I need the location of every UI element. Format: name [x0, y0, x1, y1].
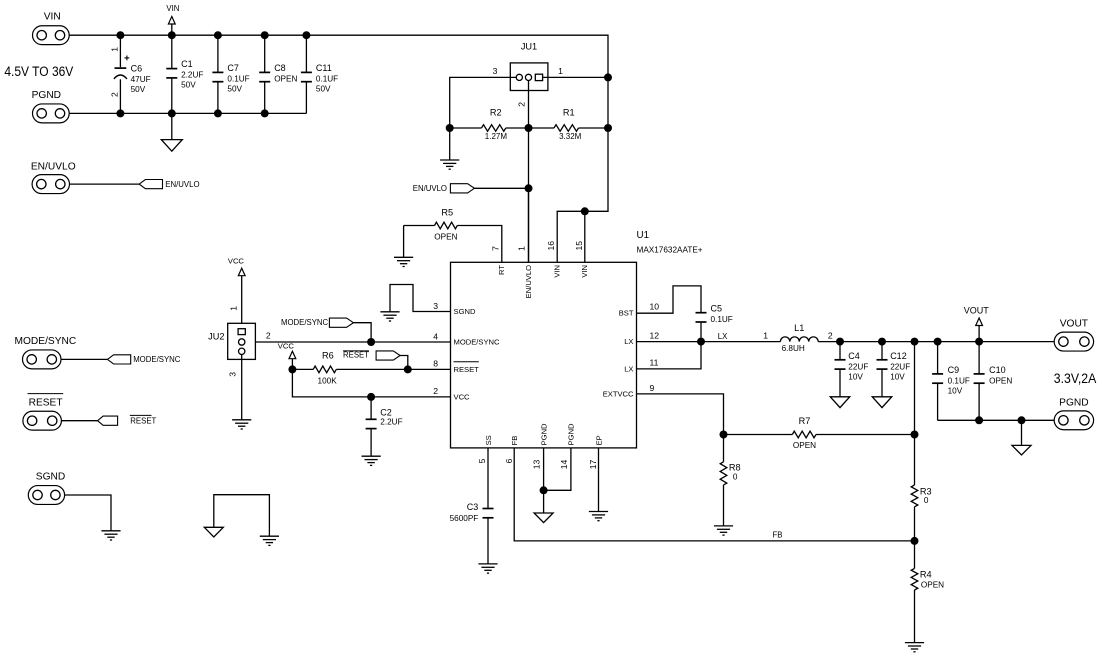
svg-text:2: 2 [516, 102, 526, 107]
svg-text:4.5V TO 36V: 4.5V TO 36V [4, 64, 73, 80]
svg-text:3: 3 [227, 372, 237, 377]
pin 1 label of JU1 [558, 66, 563, 76]
svg-text:LX: LX [624, 337, 633, 346]
svg-text:JU1: JU1 [521, 42, 537, 52]
svg-text:OPEN: OPEN [434, 232, 457, 241]
svg-text:22UF: 22UF [848, 362, 868, 371]
svg-text:EP: EP [594, 435, 603, 445]
wire JU2 pin3 to ground [232, 355, 251, 430]
ground SGND below R2 [440, 128, 459, 169]
pin number 3 [433, 301, 438, 311]
pin name MODE/SYNC [454, 338, 501, 347]
svg-text:2: 2 [110, 92, 120, 97]
pin name LX11 [624, 364, 633, 373]
jumper JU1 [510, 42, 548, 91]
svg-text:MODE/SYNC: MODE/SYNC [454, 338, 501, 347]
ground EP [589, 512, 608, 521]
wire PGND pin 14 [544, 448, 571, 490]
svg-text:13: 13 [532, 460, 542, 470]
svg-text:1: 1 [558, 66, 563, 76]
svg-text:RESET: RESET [29, 397, 63, 408]
pin number 14 [559, 460, 569, 470]
pin 1 label of JU2 [228, 306, 238, 311]
svg-text:5600PF: 5600PF [450, 514, 479, 523]
junction R2-R1 mid [525, 124, 533, 132]
wire FB net [514, 448, 914, 541]
svg-text:1: 1 [228, 306, 238, 311]
wire VCC to pin 2 [292, 369, 450, 397]
wire VIN top rail [69, 35, 608, 211]
svg-text:10V: 10V [890, 372, 905, 381]
svg-text:2.2UF: 2.2UF [181, 71, 203, 80]
wire EP pin 17 [598, 448, 600, 512]
svg-text:C9: C9 [948, 365, 960, 375]
junction EN/UVLO [525, 184, 533, 192]
pin number 9 [650, 383, 655, 393]
pin number 2 [433, 386, 438, 396]
wire JU1 pin3 to R2 [450, 77, 517, 128]
label output rating [1054, 371, 1097, 387]
svg-text:C5: C5 [711, 304, 723, 314]
svg-text:RESET: RESET [343, 351, 369, 360]
net tag EN/UVLO [413, 184, 529, 193]
svg-text:VCC: VCC [228, 257, 245, 266]
junction RESET pin8 [404, 365, 412, 373]
pin name RESET [454, 362, 480, 374]
pin name BST [619, 309, 634, 318]
pin 3 label of JU1 [493, 66, 498, 76]
capacitor C6 [114, 35, 151, 113]
svg-text:C4: C4 [848, 351, 860, 361]
connector J-VOUT [1054, 318, 1093, 351]
capacitor C7 [212, 35, 249, 113]
wire JU1 pin1 to VIN loop [543, 76, 608, 78]
pin 1 EN/UVLO stub [528, 188, 530, 262]
junction VIN pins [581, 207, 589, 215]
junction C2 top [367, 393, 375, 401]
svg-text:4: 4 [433, 331, 438, 341]
svg-text:5: 5 [477, 458, 487, 463]
pin 2 label of JU1 [516, 102, 526, 107]
ground bridge PGND-SGND [204, 495, 279, 546]
svg-text:15: 15 [574, 241, 584, 251]
svg-text:C3: C3 [467, 502, 479, 512]
resistor R8 [714, 435, 741, 536]
svg-text:22UF: 22UF [890, 362, 910, 371]
resistor R5 [404, 207, 502, 262]
connector J-PGND output [1054, 397, 1093, 429]
wire R3 riser [914, 342, 916, 435]
resistor R2 [450, 108, 529, 141]
wire LX pin 11 [637, 342, 702, 369]
power flag VIN [166, 4, 179, 35]
svg-text:1: 1 [110, 47, 120, 52]
resistor R4 [905, 541, 944, 652]
svg-text:100K: 100K [318, 377, 338, 386]
svg-text:PGND: PGND [539, 423, 548, 445]
resistor R6 [292, 351, 407, 386]
svg-text:OPEN: OPEN [921, 580, 944, 589]
svg-text:3: 3 [493, 66, 498, 76]
svg-text:VOUT: VOUT [1060, 318, 1088, 329]
svg-text:VCC: VCC [278, 342, 295, 351]
inductor L1 [763, 323, 833, 353]
svg-text:2.2UF: 2.2UF [380, 417, 402, 426]
pin 2 label of JU2 [266, 331, 271, 341]
svg-text:SGND: SGND [36, 472, 65, 483]
svg-text:VOUT: VOUT [964, 306, 990, 316]
pin number 1 of C6 [110, 47, 120, 52]
pin number 6 [504, 458, 514, 463]
svg-text:VIN: VIN [580, 265, 589, 278]
svg-text:SS: SS [484, 435, 493, 445]
pin name FB [510, 436, 519, 446]
pin 15 VIN stub [584, 211, 586, 262]
svg-text:R3: R3 [920, 486, 932, 496]
pin name SGND [454, 307, 476, 316]
svg-text:10V: 10V [948, 386, 963, 395]
svg-text:10: 10 [650, 302, 660, 312]
svg-text:VCC: VCC [454, 392, 471, 401]
resistor R7 [724, 416, 915, 450]
junction PGND pins [540, 486, 548, 494]
svg-text:16: 16 [546, 241, 556, 251]
label input voltage range [4, 64, 73, 80]
junction R1 right [604, 124, 612, 132]
junction VOUT flag [975, 338, 983, 346]
capacitor C10 [974, 342, 1013, 421]
pin number 12 [650, 330, 660, 340]
svg-text:EN/UVLO: EN/UVLO [31, 161, 76, 172]
svg-text:LX: LX [718, 332, 728, 341]
svg-text:50V: 50V [181, 81, 196, 90]
wire BST to C5 [637, 286, 702, 313]
svg-text:C2: C2 [380, 407, 392, 417]
capacitor C4 [830, 342, 868, 408]
junction C5-LX [697, 338, 705, 346]
svg-text:1.27M: 1.27M [485, 132, 508, 141]
svg-text:EN/UVLO: EN/UVLO [165, 180, 199, 189]
op-amp U1 MAX17632AATE+ body [451, 230, 703, 448]
junction EXTVCC R7 R8 [720, 431, 728, 439]
svg-text:2: 2 [828, 330, 833, 340]
pin 16 VIN stub [557, 211, 585, 262]
wire PGND input rail [69, 112, 306, 114]
capacitor C5 [696, 304, 733, 342]
svg-text:FB: FB [773, 531, 783, 540]
svg-text:R1: R1 [563, 108, 575, 118]
svg-text:PGND: PGND [1059, 397, 1088, 408]
junction MODE/SYNC [367, 338, 375, 346]
capacitor C11 [301, 35, 338, 113]
svg-text:MAX17632AATE+: MAX17632AATE+ [637, 245, 703, 254]
svg-text:12: 12 [650, 330, 660, 340]
capacitor C8 [259, 35, 297, 113]
svg-text:0.1UF: 0.1UF [227, 74, 249, 83]
svg-text:47UF: 47UF [131, 75, 151, 84]
ground SGND below R5 [394, 226, 413, 267]
pin number 5 [477, 458, 487, 463]
pin name PGND13 [539, 423, 548, 445]
svg-text:MODE/SYNC: MODE/SYNC [133, 355, 181, 364]
pin name PGND14 [567, 423, 576, 445]
svg-text:VIN: VIN [44, 11, 61, 22]
capacitor C9 [932, 342, 970, 421]
pin name VCC [454, 392, 471, 401]
pin name EN/UVLO [524, 265, 533, 298]
net tag MODE/SYNC near U1 [281, 318, 371, 342]
svg-text:6: 6 [504, 458, 514, 463]
svg-text:RESET: RESET [454, 365, 480, 374]
svg-text:R6: R6 [322, 351, 334, 361]
svg-text:9: 9 [650, 383, 655, 393]
svg-text:RT: RT [497, 265, 506, 275]
svg-text:JU2: JU2 [208, 331, 224, 341]
ground PGND pins 13-14 [534, 490, 553, 522]
svg-text:R2: R2 [490, 108, 502, 118]
junction VCC R6 [288, 365, 296, 373]
svg-text:R8: R8 [729, 462, 741, 472]
svg-text:3.32M: 3.32M [559, 132, 582, 141]
wire output bottom [938, 419, 1055, 421]
junction C10 bottom [975, 416, 983, 424]
pin name EP [594, 435, 603, 445]
svg-text:14: 14 [559, 460, 569, 470]
svg-text:PGND: PGND [567, 423, 576, 445]
svg-text:C11: C11 [316, 63, 332, 73]
wire JU1 pin2 down [528, 81, 530, 263]
junction JU1 pin1 [604, 73, 612, 81]
svg-text:U1: U1 [637, 230, 650, 241]
connector J-VIN [33, 11, 70, 44]
wire JU2 pin2 to pin4 [245, 341, 451, 343]
pin number 17 [588, 460, 598, 470]
svg-text:0.1UF: 0.1UF [711, 315, 733, 324]
svg-text:50V: 50V [131, 85, 146, 94]
jumper JU2 [208, 323, 255, 359]
power flag VOUT [964, 306, 990, 342]
wire L1 to VOUT connector [818, 341, 1054, 343]
svg-text:PGND: PGND [32, 90, 61, 101]
svg-text:0.1UF: 0.1UF [316, 74, 338, 83]
pin number 10 [650, 302, 660, 312]
pin name VIN 16 [553, 265, 562, 278]
pin number 11 [650, 358, 659, 368]
svg-text:3.3V,2A: 3.3V,2A [1054, 371, 1097, 387]
power flag VCC above JU2 [228, 257, 245, 329]
pin number 8 [433, 359, 438, 369]
ground PGND input [161, 113, 182, 151]
capacitor C1 [166, 35, 203, 113]
junction R7 right [911, 431, 919, 439]
svg-text:OPEN: OPEN [989, 376, 1012, 385]
svg-text:EN/UVLO: EN/UVLO [524, 265, 533, 298]
pin number 7 [491, 246, 501, 251]
junction C12 top [878, 338, 886, 346]
junction C9 top [934, 338, 942, 346]
svg-text:1: 1 [517, 246, 527, 251]
pin name SS [484, 435, 493, 445]
svg-text:EXTVCC: EXTVCC [603, 389, 634, 398]
resistor R1 [529, 108, 609, 141]
svg-text:MODE/SYNC: MODE/SYNC [281, 318, 329, 327]
svg-text:0.1UF: 0.1UF [948, 376, 970, 385]
svg-text:0: 0 [924, 496, 929, 505]
net tag RESET near R6 [343, 351, 408, 370]
net label LX [718, 332, 728, 341]
junction output PGND [1018, 416, 1026, 424]
wire EXTVCC pin 9 [637, 394, 724, 435]
svg-text:RESET: RESET [130, 416, 156, 425]
svg-text:C8: C8 [274, 63, 286, 73]
junction FB R3 R4 [911, 537, 919, 545]
svg-text:FB: FB [510, 436, 519, 446]
wire R6 junction to pin 8 [408, 368, 451, 370]
svg-text:C1: C1 [181, 59, 193, 69]
ground output PGND [1012, 420, 1031, 455]
svg-text:17: 17 [588, 460, 598, 470]
pin name VIN 15 [580, 265, 589, 278]
svg-text:C6: C6 [131, 64, 143, 74]
svg-text:VIN: VIN [553, 265, 562, 278]
connector J-RESET [23, 394, 157, 431]
svg-text:1: 1 [763, 330, 768, 340]
connector J-SGND [28, 472, 120, 540]
pin number 2 of C6 [110, 92, 120, 97]
svg-text:C7: C7 [227, 63, 239, 73]
svg-text:2: 2 [433, 386, 438, 396]
svg-text:7: 7 [491, 246, 501, 251]
svg-text:11: 11 [650, 358, 659, 368]
connector J-PGND input [32, 90, 70, 123]
pin number 15 [574, 241, 584, 251]
junction R2 left [446, 124, 454, 132]
svg-text:OPEN: OPEN [793, 441, 816, 450]
capacitor C12 [872, 342, 910, 408]
svg-text:50V: 50V [316, 84, 331, 93]
pin name LX12 [624, 337, 633, 346]
svg-text:3: 3 [433, 301, 438, 311]
pin name RT [497, 265, 506, 275]
pin number 1 [517, 246, 527, 251]
pin 3 SGND bridge wire [380, 285, 450, 322]
capacitor C3 [450, 502, 498, 573]
svg-text:R5: R5 [441, 207, 453, 217]
pin number 13 [532, 460, 542, 470]
wire PGND pin 13 [543, 448, 545, 490]
svg-text:0: 0 [733, 472, 738, 481]
svg-text:8: 8 [433, 359, 438, 369]
connector J-ENUVLO [31, 161, 200, 193]
net label FB [773, 531, 783, 540]
pin number 16 [546, 241, 556, 251]
svg-text:50V: 50V [227, 84, 242, 93]
connector J-MODESYNC [15, 336, 181, 369]
svg-text:6.8UH: 6.8UH [782, 344, 805, 353]
svg-text:BST: BST [619, 309, 634, 318]
svg-text:R4: R4 [920, 570, 932, 580]
svg-text:MODE/SYNC: MODE/SYNC [15, 336, 77, 347]
resistor R3 [911, 435, 931, 541]
junction R3 riser top [911, 338, 919, 346]
svg-text:EN/UVLO: EN/UVLO [413, 184, 447, 193]
junction L1-C4 [836, 338, 844, 346]
capacitor C2 [362, 397, 403, 466]
power flag VCC at R6 [278, 342, 296, 370]
svg-text:C10: C10 [989, 365, 1006, 375]
wire LX pin 12 rail [637, 341, 781, 343]
junction dots input rails [116, 31, 310, 117]
svg-text:L1: L1 [794, 323, 804, 333]
svg-text:C12: C12 [890, 351, 907, 361]
svg-text:SGND: SGND [454, 307, 476, 316]
pin name EXTVCC [603, 389, 634, 398]
svg-text:VIN: VIN [166, 4, 179, 13]
wire SS pin 5 [487, 448, 489, 508]
pin 3 label of JU2 [227, 372, 237, 377]
svg-text:10V: 10V [848, 372, 863, 381]
svg-text:R7: R7 [799, 416, 811, 426]
svg-text:LX: LX [624, 364, 633, 373]
pin number 4 [433, 331, 438, 341]
svg-text:OPEN: OPEN [274, 74, 297, 83]
svg-text:2: 2 [266, 331, 271, 341]
